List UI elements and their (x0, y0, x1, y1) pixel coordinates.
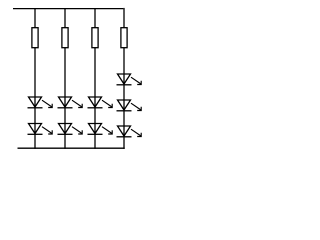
resistor R2 (62, 28, 68, 48)
LED D1 (28, 97, 53, 108)
resistor R1 (32, 28, 38, 48)
LED D8 (117, 100, 142, 111)
wire branch 3 top lead (94, 9, 96, 28)
wire branch 1 top lead (34, 9, 36, 28)
LED D2 (28, 124, 53, 135)
LED D5 (88, 97, 113, 108)
wire branch 4 vertical (123, 48, 125, 149)
LED D6 (88, 124, 113, 135)
wire branch 4 top corner (123, 8, 125, 28)
wire branch 2 top lead (64, 9, 66, 28)
resistor R3 (92, 28, 98, 48)
resistor R4 (121, 28, 127, 48)
wire branch 2 vertical (64, 48, 66, 149)
wire branch 1 vertical (34, 48, 36, 149)
LED D7 (117, 74, 142, 85)
LED D9 (117, 126, 142, 137)
wire branch 3 vertical (94, 48, 96, 149)
bottom return rail wire (18, 147, 125, 149)
LED D3 (58, 97, 83, 108)
top supply rail wire (13, 8, 123, 10)
LED D4 (58, 124, 83, 135)
